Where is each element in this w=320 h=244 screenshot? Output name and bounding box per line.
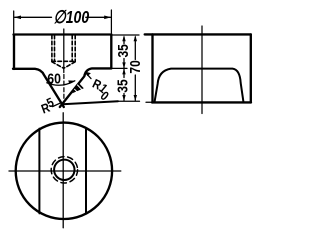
svg-text:∅100: ∅100 [54,7,90,27]
svg-text:70: 70 [127,60,144,73]
svg-text:60: 60 [47,70,61,86]
svg-text:35: 35 [114,79,131,93]
svg-text:35: 35 [115,44,132,58]
